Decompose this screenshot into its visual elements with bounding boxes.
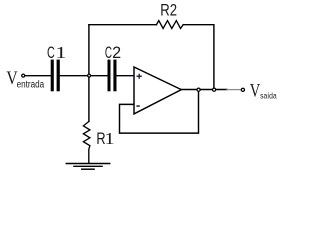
svg-text:2: 2 [112, 44, 121, 62]
svg-text:1: 1 [55, 43, 66, 62]
svg-text:C: C [47, 44, 55, 62]
svg-text:saída: saída [260, 91, 277, 101]
svg-text:R2: R2 [160, 1, 177, 19]
svg-text:C: C [105, 44, 112, 62]
svg-text:1: 1 [104, 129, 114, 148]
svg-text:V: V [250, 81, 261, 102]
svg-text:entrada: entrada [17, 80, 45, 91]
